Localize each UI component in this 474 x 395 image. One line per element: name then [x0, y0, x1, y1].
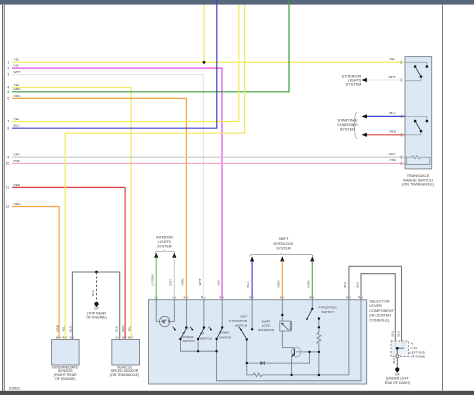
p-position switch contact and blade: [311, 308, 313, 310]
junction dot diode wire: [246, 362, 248, 364]
brace grouping BLU RED: [353, 113, 358, 139]
svg-text:ORG: ORG: [14, 202, 22, 206]
svg-text:DOWN: DOWN: [219, 331, 229, 335]
wire 10 PNK to transaxle range switch: [12, 162, 405, 164]
wire VIO pin down to down switch: [221, 300, 223, 328]
wire WHT to exterior lights system: [366, 79, 405, 81]
wire RED to starting charging system: [366, 134, 405, 136]
bottom bus with resistor R2: [247, 363, 349, 377]
wire BLU to big box: [251, 261, 253, 300]
wire BLK pin down right edge to bottom bus: [217, 300, 361, 381]
svg-text:RED: RED: [389, 130, 396, 134]
wire GRN pin down to p-position switch: [311, 300, 313, 309]
svg-text:SHIFT: SHIFT: [278, 237, 289, 241]
wire BLU to starting charging system: [366, 115, 405, 117]
switch S2 contacts and blade: [426, 120, 429, 123]
svg-text:BLK: BLK: [91, 289, 95, 296]
svg-text:C 46: C 46: [411, 346, 418, 350]
svg-text:UP: UP: [200, 331, 204, 335]
svg-text:COMPONENT: COMPONENT: [369, 309, 394, 313]
wire 11 RED to vehicle speed sensor pin A: [12, 187, 125, 339]
svg-text:VIO: VIO: [216, 280, 220, 286]
svg-text:VIO: VIO: [14, 64, 20, 68]
svg-text:SOLENOID: SOLENOID: [258, 328, 275, 332]
svg-text:WHT: WHT: [388, 75, 395, 79]
wire ORG pin down to solenoid: [281, 300, 283, 321]
arrow up LT GRN: [154, 253, 158, 258]
resistor R3 dots: [318, 326, 320, 328]
svg-text:YEL: YEL: [61, 326, 65, 332]
svg-text:G7: G7: [94, 307, 99, 311]
wire 4 YEL to vehicle speed sensor pin B: [12, 88, 131, 340]
switch S2 blue feed wire: [405, 116, 427, 120]
svg-text:CHARGING: CHARGING: [337, 123, 358, 127]
wire ORG pin down to range switch: [185, 300, 187, 328]
node A junction dot wire1: [203, 61, 206, 64]
switch common bus: [180, 339, 216, 351]
arrow to exterior lights: [362, 78, 367, 82]
svg-text:YEL: YEL: [127, 326, 131, 332]
svg-text:GRY: GRY: [169, 279, 173, 286]
pin connector marks: [58, 61, 403, 338]
svg-text:ORG: ORG: [181, 278, 185, 286]
node junction on BLK net: [95, 271, 98, 274]
svg-text:11: 11: [6, 186, 10, 190]
wire GRN to big box: [311, 261, 313, 300]
switch S1 yellow feed wire: [405, 62, 427, 66]
svg-text:SYSTEM: SYSTEM: [276, 246, 290, 250]
vehicle speed sensor box: [112, 340, 140, 366]
svg-text:SWITCH: SWITCH: [235, 324, 247, 328]
range switch contacts blade and dots: [185, 326, 187, 328]
svg-text:LT GRN: LT GRN: [150, 274, 154, 285]
svg-text:PNK: PNK: [14, 159, 21, 163]
up switch contacts blade and dots: [203, 326, 205, 328]
svg-text:2: 2: [7, 66, 9, 70]
wire BLK inner loop from big box to C46: [361, 274, 395, 349]
wire BLK pin down to emitter bus: [348, 300, 350, 375]
svg-text:GRN: GRN: [14, 87, 21, 91]
svg-text:SYSTEM: SYSTEM: [346, 83, 362, 87]
base wire: [296, 351, 319, 353]
svg-text:OF ENGINE): OF ENGINE): [86, 315, 106, 319]
svg-text:LIGHTS: LIGHTS: [158, 240, 171, 244]
not p position switch contacts and blade: [251, 328, 253, 330]
selector lever component box: [149, 300, 367, 384]
brace over interior lights arrows: [155, 250, 175, 253]
wire 2 VIO to big box pin C: [12, 68, 222, 300]
wire 6 ORG to big box pin A: [12, 98, 186, 299]
svg-text:(ON TRANSAXLE): (ON TRANSAXLE): [402, 182, 435, 186]
switch S1 white lead: [405, 77, 421, 81]
wire 12 ORG to intermediate sensor pin B: [12, 207, 59, 340]
junction dots on common bus: [197, 350, 199, 352]
ground G4: [395, 367, 399, 371]
svg-text:P POSITION: P POSITION: [229, 319, 247, 323]
svg-text:12: 12: [6, 205, 10, 209]
svg-text:10: 10: [6, 162, 10, 166]
svg-text:YEL: YEL: [14, 58, 20, 62]
ground G7: [94, 302, 98, 306]
diode D1 wire to base riser: [247, 352, 310, 363]
intermediate sensor box: [52, 340, 80, 366]
solenoid SOL1 junction dot: [281, 314, 283, 316]
svg-text:RED: RED: [121, 325, 125, 332]
svg-text:E00622: E00622: [9, 386, 20, 390]
svg-text:SYSTEM: SYSTEM: [340, 128, 356, 132]
svg-text:GRY: GRY: [14, 153, 21, 157]
svg-text:PNK: PNK: [390, 158, 397, 162]
svg-text:RED: RED: [14, 183, 21, 187]
svg-text:SWITCH: SWITCH: [200, 337, 212, 341]
wire 9 GRY to transaxle range switch: [12, 156, 405, 158]
svg-text:CONSOLE): CONSOLE): [369, 318, 390, 322]
svg-text:(IN CENTER: (IN CENTER: [369, 314, 391, 318]
wire 3 WHT to big box pin B: [12, 74, 203, 299]
switch S1 contacts and blade: [426, 65, 429, 68]
svg-text:ORG: ORG: [55, 324, 59, 332]
svg-text:NOT: NOT: [240, 315, 247, 319]
wire YEL from top edge to intermediate sensor pin A: [65, 5, 244, 340]
svg-text:6: 6: [7, 97, 9, 101]
svg-text:INTERIOR: INTERIOR: [156, 235, 173, 239]
svg-text:8: 8: [7, 126, 9, 130]
not-p switch drop to diode wire: [246, 339, 248, 363]
arrow up GRY: [172, 253, 176, 258]
wire ORG to big box: [281, 261, 283, 300]
svg-text:STARTING/: STARTING/: [338, 118, 359, 122]
diode D1: [260, 361, 264, 365]
svg-text:BLK: BLK: [343, 281, 347, 288]
svg-text:BLK: BLK: [397, 330, 401, 337]
svg-text:ORG: ORG: [276, 280, 280, 288]
svg-text:P-POSITION: P-POSITION: [319, 305, 337, 309]
svg-text:7: 7: [7, 120, 9, 124]
svg-text:GRN: GRN: [306, 281, 310, 288]
svg-text:WHT: WHT: [14, 70, 21, 74]
resistor R3 vertical: [317, 319, 321, 375]
top title bar: [0, 0, 474, 5]
svg-text:END OF DASH): END OF DASH): [385, 381, 410, 385]
svg-text:SYSTEM: SYSTEM: [157, 245, 171, 249]
wire BLK ground net of both sensors: [72, 272, 119, 340]
wire GRY to big box: [173, 257, 175, 300]
wire LT GRN to big box: [155, 257, 157, 300]
svg-text:9: 9: [7, 155, 9, 159]
wire WHT pin down to up switch: [203, 300, 205, 328]
wire 7 YEL to top edge: [12, 5, 239, 122]
wire 8 BLU to top edge: [12, 0, 217, 128]
svg-text:GRY: GRY: [389, 152, 396, 156]
resistor R1 sensor loop: [405, 156, 430, 165]
svg-text:OF ENGINE): OF ENGINE): [55, 377, 75, 381]
transaxle range switch box: [405, 57, 432, 169]
bottom bar: [0, 391, 474, 395]
lamp L1 leads: [156, 300, 159, 322]
svg-text:BLU: BLU: [246, 281, 250, 287]
arrow up BLU: [250, 256, 254, 261]
left page border: [1, 5, 4, 391]
svg-text:1: 1: [7, 61, 9, 65]
junction dots base and emitter: [308, 351, 310, 353]
transistor Q1: [291, 347, 301, 357]
wire BLK dashed drop to G7: [96, 272, 98, 301]
wire BLK outer loop from big box to C46: [349, 266, 404, 348]
svg-text:YEL: YEL: [14, 117, 20, 121]
wire BLK from C46 to G4: [396, 358, 398, 367]
junction inside C46: [395, 348, 404, 355]
solenoid SOL1 body: [280, 321, 290, 331]
svg-text:INTERLOCK: INTERLOCK: [273, 242, 294, 246]
svg-text:3: 3: [7, 73, 9, 77]
lamp L1: [160, 316, 170, 326]
svg-text:SWITCH: SWITCH: [183, 339, 195, 343]
wire YEL vertical from top to node on wire 1: [203, 5, 205, 63]
arrow RED: [362, 133, 367, 137]
svg-text:ORG: ORG: [14, 94, 22, 98]
switch S2 red lead: [405, 131, 421, 135]
svg-text:BLK: BLK: [392, 357, 396, 364]
solenoid SOL1 lower lead to transistor: [282, 331, 294, 350]
svg-text:OF DASH): OF DASH): [411, 355, 426, 359]
connector symbol at C46 bottom: [396, 355, 399, 358]
svg-text:YEL: YEL: [389, 57, 395, 61]
svg-text:SWITCH: SWITCH: [219, 335, 231, 339]
svg-text:LEVER: LEVER: [369, 304, 382, 308]
svg-text:WHT: WHT: [198, 278, 202, 285]
svg-text:BLK: BLK: [390, 330, 394, 337]
brace over shift interlock arrows: [250, 253, 314, 256]
svg-text:BLU: BLU: [14, 124, 20, 128]
wire 1 YEL horizontal to transaxle range switch: [12, 61, 405, 63]
down switch contacts blade and dots: [221, 326, 223, 328]
svg-text:BLU: BLU: [389, 111, 395, 115]
right page border: [441, 5, 444, 391]
svg-text:5: 5: [7, 90, 9, 94]
connector C46 dashed box: [391, 341, 409, 357]
svg-text:(ON TRANSAXLE): (ON TRANSAXLE): [110, 373, 139, 377]
svg-text:BLK: BLK: [115, 325, 119, 332]
arrow up GRN: [310, 256, 314, 261]
arrow BLU: [362, 114, 367, 118]
arrow up ORG: [280, 256, 284, 261]
svg-text:SWITCH: SWITCH: [321, 310, 333, 314]
svg-text:SELECTOR: SELECTOR: [369, 300, 390, 304]
emitter lead down to bus: [291, 357, 293, 375]
svg-text:BLK: BLK: [355, 281, 359, 288]
wire BLU pin down to not-p switch: [251, 300, 253, 329]
wire 5 GRN to top edge: [12, 0, 289, 92]
